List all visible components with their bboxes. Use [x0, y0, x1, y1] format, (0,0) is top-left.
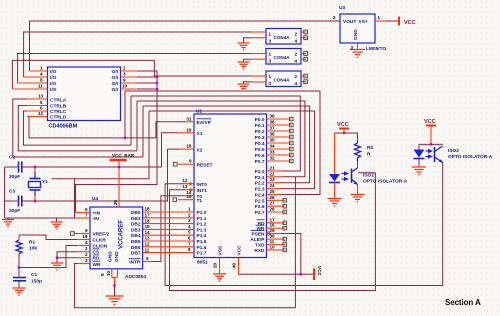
wire CON4A J3 pin3 to ground G6: [244, 82, 252, 84]
svg-text:I/O: I/O: [50, 69, 57, 75]
connector CON4A J2: [251, 49, 308, 65]
svg-text:1: 1: [269, 74, 272, 79]
ground G13: [51, 263, 63, 270]
wire crystal node A to X1: [35, 133, 178, 167]
svg-text:PSEN: PSEN: [251, 232, 265, 238]
resistor R2: [355, 143, 374, 161]
svg-text:2: 2: [85, 252, 88, 257]
svg-text:3: 3: [123, 72, 126, 77]
wire R1 to CLKR: [19, 235, 77, 240]
ground G3 under U3: [350, 50, 365, 58]
svg-text:33: 33: [270, 150, 276, 155]
svg-text:1: 1: [85, 246, 88, 251]
bus CD4066 outputs: [76, 71, 158, 213]
ground G5: [238, 62, 250, 69]
svg-text:C1: C1: [31, 272, 37, 278]
wire ground G1 stub: [7, 218, 9, 220]
wire CON4A2 pin1 to CD4066 pin8: [18, 54, 251, 84]
wire -IN feeder: [74, 179, 76, 218]
wire nest h5 P2.3: [149, 111, 315, 189]
svg-text:P2.2: P2.2: [255, 181, 265, 187]
VCC symbol above R2: [337, 122, 349, 134]
svg-text:36: 36: [270, 132, 276, 137]
svg-text:VREF/2: VREF/2: [93, 232, 110, 238]
svg-text:R2: R2: [367, 145, 373, 151]
svg-text:6: 6: [85, 207, 88, 212]
svg-text:15: 15: [186, 194, 192, 199]
svg-text:10: 10: [122, 84, 128, 89]
opto isolator ISO2 left: [329, 133, 408, 199]
svg-text:8: 8: [100, 273, 105, 276]
svg-text:CTRLB: CTRLB: [50, 104, 67, 110]
ground G7 under U1 VSS: [213, 274, 226, 281]
VCC bar at U3 output: [399, 17, 416, 27]
wire T0 to ADC INTR: [152, 196, 185, 262]
svg-text:RD: RD: [93, 256, 100, 262]
svg-text:DB0: DB0: [131, 210, 141, 216]
capacitor C2: [5, 155, 36, 181]
VCC bar right of U1: [314, 266, 322, 280]
svg-text:-IN: -IN: [93, 216, 100, 222]
svg-text:VS+: VS+: [359, 19, 368, 25]
svg-text:3: 3: [269, 81, 272, 86]
svg-text:P0.3: P0.3: [255, 135, 265, 141]
svg-text:P2.5: P2.5: [255, 198, 265, 204]
svg-text:20: 20: [213, 262, 218, 268]
svg-text:ISO2: ISO2: [448, 148, 459, 154]
svg-text:GND: GND: [353, 29, 359, 40]
svg-text:P0.5: P0.5: [255, 147, 265, 153]
svg-text:O/I: O/I: [112, 75, 119, 81]
svg-text:VOUT: VOUT: [343, 19, 356, 25]
svg-text:10k: 10k: [29, 246, 37, 252]
svg-text:25: 25: [270, 189, 276, 194]
opto isolator ISO2 right: [414, 144, 493, 167]
wire CON4A J2 pin3 to ground G5: [244, 59, 252, 62]
svg-text:18: 18: [186, 144, 192, 149]
svg-text:3: 3: [85, 258, 88, 263]
svg-text:WR: WR: [93, 262, 102, 268]
capacitor C3: [5, 189, 36, 215]
svg-text:9: 9: [189, 159, 192, 164]
crystal Y1: [29, 167, 49, 201]
svg-text:P1.4: P1.4: [197, 233, 207, 239]
svg-text:10: 10: [106, 270, 111, 276]
svg-text:P2.1: P2.1: [255, 175, 265, 181]
svg-text:P0.1: P0.1: [255, 123, 265, 129]
svg-text:5: 5: [40, 100, 43, 105]
svg-text:24: 24: [270, 183, 276, 188]
svg-text:30: 30: [270, 234, 276, 239]
svg-text:4: 4: [295, 59, 298, 64]
svg-text:DB6: DB6: [131, 245, 141, 251]
svg-text:22: 22: [270, 171, 276, 176]
svg-text:2: 2: [295, 52, 298, 57]
svg-text:19: 19: [186, 127, 192, 132]
svg-text:2: 2: [188, 212, 191, 217]
svg-text:12: 12: [182, 178, 188, 183]
ground G11: [13, 288, 26, 295]
svg-text:1: 1: [378, 15, 381, 20]
ground G2: [51, 222, 63, 229]
svg-text:13: 13: [145, 236, 151, 241]
resistor R1: [16, 235, 37, 268]
svg-text:U1: U1: [196, 109, 202, 115]
svg-text:LM05/TO: LM05/TO: [366, 46, 386, 52]
wire h5 to -IN rail: [52, 111, 150, 179]
wire INT1 loop to ISO2 left: [170, 173, 376, 291]
svg-text:T1: T1: [197, 198, 203, 204]
svg-text:P2.6: P2.6: [255, 204, 265, 210]
svg-text:CTRLC: CTRLC: [50, 109, 67, 115]
svg-text:RXD: RXD: [254, 248, 265, 254]
wire INT0 loop to ISO2 right: [165, 162, 443, 286]
svg-text:6: 6: [188, 236, 191, 241]
wire PSEN to VCC node: [281, 234, 301, 275]
svg-text:P1.1: P1.1: [197, 216, 207, 222]
svg-text:O/I: O/I: [112, 69, 119, 75]
svg-text:INT0: INT0: [197, 182, 208, 188]
svg-text:P0.7: P0.7: [255, 159, 265, 165]
svg-text:32: 32: [270, 156, 276, 161]
svg-text:CON4A: CON4A: [274, 78, 291, 83]
svg-text:11: 11: [38, 84, 43, 89]
svg-text:4: 4: [85, 240, 88, 245]
wire U3 pin2 to CD4066 pin1: [30, 21, 341, 71]
svg-text:15: 15: [145, 224, 151, 229]
svg-text:P1.6: P1.6: [197, 245, 207, 251]
svg-text:VCC: VCC: [237, 245, 243, 256]
svg-text:4: 4: [295, 39, 298, 44]
junction node B crystal bottom: [34, 200, 37, 203]
wire ADC WR loop to PSEN vertical: [75, 177, 296, 308]
svg-text:4: 4: [40, 72, 43, 77]
wire 8051 VCC pin to VCC bar: [239, 270, 314, 274]
svg-text:37: 37: [270, 126, 276, 131]
svg-text:35: 35: [270, 138, 276, 143]
IC U2 CD4066BM: [13, 66, 137, 130]
wire nest h2 P2.0: [131, 96, 300, 171]
svg-text:OPTO ISOLATOR-A: OPTO ISOLATOR-A: [448, 154, 493, 160]
svg-text:EA/VP: EA/VP: [197, 120, 212, 126]
regulator U3 LM05/TO: [333, 5, 399, 52]
wire nest h1 P2.4: [125, 91, 320, 195]
capacitor C1: [13, 268, 42, 289]
wire CTRLB run: [18, 106, 137, 151]
svg-text:38: 38: [270, 120, 276, 125]
svg-text:TXD: TXD: [255, 243, 265, 249]
svg-text:13: 13: [38, 94, 44, 99]
U1 right control pins: [250, 217, 286, 254]
wire CON4A J1 pin3 to ground G4: [244, 38, 252, 43]
svg-text:INTR: INTR: [129, 260, 141, 266]
wire C2 C3 left rail: [4, 167, 6, 218]
svg-text:P0.6: P0.6: [255, 153, 265, 159]
svg-text:16: 16: [145, 218, 151, 223]
wire CTRLA run: [13, 99, 143, 157]
svg-text:1: 1: [269, 52, 272, 57]
svg-text:P0.0: P0.0: [255, 117, 265, 123]
svg-text:VSS: VSS: [218, 245, 224, 255]
svg-text:P0.4: P0.4: [255, 141, 265, 147]
svg-text:7: 7: [85, 213, 88, 218]
wire ADC CS to RD net: [57, 252, 77, 258]
svg-text:DB7: DB7: [131, 251, 141, 257]
junction VCC_BAR X1 net: [118, 166, 121, 169]
svg-text:X2: X2: [197, 147, 203, 153]
svg-text:C3: C3: [9, 189, 15, 195]
svg-text:O/I: O/I: [112, 87, 119, 93]
svg-text:WR: WR: [257, 226, 266, 232]
svg-text:21: 21: [270, 166, 276, 171]
wire ADC RD to ground G13: [57, 258, 77, 263]
svg-text:40: 40: [232, 262, 237, 268]
junction PSEN VCC net: [299, 273, 302, 276]
svg-text:DB4: DB4: [131, 233, 141, 239]
svg-text:VCCAREF: VCCAREF: [119, 220, 125, 249]
junction CD4066 O/I bus pin3: [156, 76, 159, 79]
wire VCC rail of ISO2 right: [419, 143, 443, 145]
svg-text:VCC_BAR: VCC_BAR: [112, 153, 135, 158]
svg-text:9: 9: [123, 78, 126, 83]
svg-text:1: 1: [40, 66, 43, 71]
svg-text:Section A: Section A: [445, 298, 481, 307]
svg-text:CON4A: CON4A: [274, 35, 291, 40]
svg-text:U3: U3: [339, 5, 345, 11]
svg-text:5: 5: [188, 230, 191, 235]
svg-text:P2.4: P2.4: [255, 193, 265, 199]
svg-text:VCC: VCC: [424, 119, 436, 125]
svg-text:GND: GND: [114, 251, 120, 262]
svg-text:C2: C2: [9, 155, 15, 161]
svg-text:1: 1: [188, 207, 191, 212]
svg-text:12: 12: [145, 242, 151, 247]
svg-text:8: 8: [188, 247, 191, 252]
wire VCC rail of ISO2 left: [335, 133, 358, 143]
junction ADC RD ground net: [56, 256, 59, 259]
svg-text:RD: RD: [258, 221, 265, 227]
junction CD4066 O/I bus pin9: [156, 82, 159, 85]
svg-text:5: 5: [146, 256, 149, 261]
svg-text:ALE/P: ALE/P: [250, 237, 265, 243]
svg-text:8: 8: [40, 78, 43, 83]
svg-text:P1.5: P1.5: [197, 239, 207, 245]
svg-text:29: 29: [270, 228, 276, 233]
svg-text:17: 17: [270, 217, 276, 222]
svg-text:3: 3: [188, 218, 191, 223]
svg-text:8051: 8051: [197, 260, 208, 266]
svg-text:6: 6: [40, 106, 43, 111]
ground G9 under ISO2-left transistor: [351, 195, 365, 203]
svg-text:30pF: 30pF: [9, 208, 20, 214]
svg-text:CTRLA: CTRLA: [50, 98, 67, 104]
U1 right side P2 port: [255, 166, 287, 217]
svg-text:X1: X1: [197, 131, 203, 137]
svg-text:14: 14: [145, 230, 151, 235]
ground G4: [238, 43, 250, 50]
svg-text:3: 3: [269, 39, 272, 44]
ground G6: [238, 84, 250, 91]
svg-text:1: 1: [269, 32, 272, 37]
ground G10 under ISO2-right LED: [412, 167, 426, 175]
U1 bottom pins VSS VCC: [213, 245, 243, 274]
svg-text:CD4066BM: CD4066BM: [49, 124, 78, 130]
connector CON4A J3: [251, 71, 308, 87]
junction ISO2 right VCC rail: [430, 143, 433, 146]
svg-text:20: 20: [113, 199, 118, 205]
svg-text:13: 13: [182, 184, 188, 189]
svg-text:R: R: [367, 152, 371, 158]
svg-text:P2.3: P2.3: [255, 187, 265, 193]
svg-text:I/O: I/O: [50, 81, 57, 87]
svg-text:DB1: DB1: [131, 216, 141, 222]
svg-text:4: 4: [188, 224, 191, 229]
wire CTRLC run: [24, 111, 132, 145]
svg-text:P2.7: P2.7: [255, 210, 265, 216]
svg-text:P1.7: P1.7: [197, 251, 207, 257]
svg-text:2: 2: [123, 66, 126, 71]
junction node A crystal top: [34, 166, 37, 169]
junction ADC GND net: [113, 284, 116, 287]
VCC_BAR symbol above U4: [110, 153, 135, 207]
connector CON4A J1: [251, 29, 308, 45]
svg-text:I/O: I/O: [50, 75, 57, 81]
svg-text:11: 11: [145, 247, 150, 252]
svg-text:VCC: VCC: [404, 20, 416, 26]
svg-text:16: 16: [270, 223, 276, 228]
svg-text:12: 12: [38, 111, 44, 116]
svg-text:CLKR: CLKR: [93, 238, 107, 244]
svg-text:Y1: Y1: [42, 179, 48, 185]
svg-text:19: 19: [82, 234, 88, 239]
svg-text:30pF: 30pF: [9, 174, 20, 180]
IC U1 8051: [173, 109, 267, 266]
svg-text:18: 18: [145, 207, 151, 212]
svg-text:R1: R1: [29, 240, 35, 246]
junction CTRLD EA/VP net: [124, 137, 127, 140]
svg-text:GND: GND: [108, 251, 114, 262]
wire CTRLD run + EA/VP: [29, 117, 185, 138]
svg-text:28: 28: [270, 207, 276, 212]
svg-text:34: 34: [270, 144, 276, 149]
svg-text:INT1: INT1: [197, 188, 208, 194]
svg-text:P1.2: P1.2: [197, 222, 207, 228]
svg-text:P1.3: P1.3: [197, 227, 207, 233]
svg-text:10: 10: [270, 244, 276, 249]
ground G1: [2, 220, 14, 227]
svg-text:4: 4: [295, 81, 298, 86]
svg-text:17: 17: [145, 213, 151, 218]
VCC symbol above ISO2 right: [424, 119, 436, 144]
junction CD4066 O/I bus pin10: [156, 88, 159, 91]
svg-text:U4: U4: [92, 196, 98, 202]
svg-text:26: 26: [270, 195, 276, 200]
wire ground G2 stub: [56, 218, 58, 222]
junction R1 C1 node: [18, 266, 21, 269]
svg-text:7: 7: [188, 241, 191, 246]
wire R1/C1 junction to CLKIN: [19, 246, 77, 268]
ground G12: [106, 296, 124, 304]
svg-text:+IN: +IN: [93, 211, 101, 217]
svg-text:DB2: DB2: [131, 222, 141, 228]
wire CON4A1 pin1 to CD4066 pin4: [24, 32, 251, 77]
svg-text:2: 2: [333, 15, 336, 20]
svg-text:ADC0804: ADC0804: [125, 274, 146, 280]
svg-text:DB3: DB3: [131, 227, 141, 233]
P1 pins of U1 with DB bus to U4: [143, 207, 207, 257]
svg-text:31: 31: [186, 116, 192, 121]
wire nest h4 P2.2: [143, 106, 310, 183]
svg-text:2: 2: [295, 74, 298, 79]
wire CON4A3 pin1 to CD4066 pin11: [12, 60, 251, 89]
svg-text:I/O: I/O: [50, 87, 57, 93]
svg-text:27: 27: [270, 201, 276, 206]
svg-text:CON4A: CON4A: [274, 55, 291, 60]
svg-text:3: 3: [269, 59, 272, 64]
svg-text:VCC: VCC: [337, 122, 349, 128]
svg-text:P1.0: P1.0: [197, 210, 207, 216]
U4 GND pins to ground G12: [100, 269, 117, 296]
svg-text:11: 11: [270, 239, 275, 244]
svg-text:9: 9: [85, 228, 88, 233]
wire crystal node B to X2: [35, 149, 180, 201]
svg-text:ISO2: ISO2: [363, 173, 374, 179]
svg-text:CTRLD: CTRLD: [50, 115, 67, 121]
svg-text:VCC: VCC: [317, 266, 322, 276]
wire nest h3 P2.1: [137, 101, 305, 177]
svg-text:2: 2: [295, 32, 298, 37]
svg-text:DB5: DB5: [131, 239, 141, 245]
svg-text:O/I: O/I: [112, 81, 119, 87]
svg-text:RESET: RESET: [197, 162, 213, 168]
svg-text:P2.0: P2.0: [255, 169, 265, 175]
svg-text:39: 39: [270, 114, 276, 119]
svg-text:P0.2: P0.2: [255, 129, 265, 135]
svg-text:23: 23: [270, 177, 276, 182]
ground G8 under ISO2-left LED: [328, 199, 342, 207]
svg-text:OPTO ISOLATOR-A: OPTO ISOLATOR-A: [363, 179, 408, 185]
IC U4 ADC0804: [71, 196, 153, 280]
svg-text:150p: 150p: [31, 279, 42, 285]
U1 right side P0 port with pads: [255, 114, 293, 166]
wire -IN rail: [5, 217, 77, 219]
